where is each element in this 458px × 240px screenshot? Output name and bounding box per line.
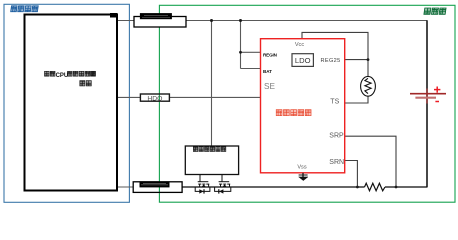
text 制器 xyxy=(80,81,91,86)
svg-text:SRN: SRN xyxy=(329,159,344,166)
FET Q1 (discharge) with body diode xyxy=(195,175,210,192)
svg-text:SE: SE xyxy=(264,82,275,91)
wire CPU box to pack- box xyxy=(117,186,133,188)
wire HDQ right xyxy=(169,96,260,98)
node SRN/rail xyxy=(356,186,359,189)
wire Vcc loop xyxy=(302,32,368,76)
text 主机CPU或电源管理控 xyxy=(45,71,55,76)
svg-text:BAT: BAT xyxy=(263,69,272,74)
host CPU / power management controller box xyxy=(25,15,118,191)
node SRP/rail xyxy=(395,186,398,189)
wire SRN xyxy=(345,161,358,188)
svg-text:Vcc: Vcc xyxy=(295,42,305,48)
battery pack positive terminal label box 电池组正极 xyxy=(134,17,186,28)
wire feed to REGIN/BAT xyxy=(240,21,242,69)
svg-text:TS: TS xyxy=(330,98,339,105)
wire TS xyxy=(345,96,368,103)
wire REG25 xyxy=(345,59,368,61)
node rail/protection feed xyxy=(210,19,213,22)
host system frame (blue) xyxy=(4,4,129,202)
IC name 气体测量计 (red) xyxy=(276,110,311,116)
wire CPU box to pack+ box xyxy=(117,20,134,22)
internal LDO block xyxy=(292,54,313,67)
svg-text:LDO: LDO xyxy=(295,56,311,65)
battery pack negative terminal label box 电池组负极 xyxy=(133,182,182,193)
wire BAT xyxy=(241,68,261,70)
fuel gauge IC U1 (red outline) xyxy=(261,39,345,173)
wire REGIN xyxy=(241,51,261,53)
protection circuit box 保护监控电路 xyxy=(185,146,238,175)
wire feed to protection circuit xyxy=(211,21,213,147)
sense resistor RS xyxy=(365,183,386,191)
svg-text:CPU: CPU xyxy=(56,73,69,79)
host system label 主机系统 xyxy=(11,6,39,12)
wire HDQ left xyxy=(117,96,140,98)
node REG25/thermistor xyxy=(367,58,370,61)
svg-text:SRP: SRP xyxy=(329,133,344,140)
svg-text:REG25: REG25 xyxy=(321,58,341,64)
wire top rail pack+ to battery xyxy=(186,20,428,22)
battery pack frame (green) xyxy=(159,5,455,202)
node rail/REGIN feed xyxy=(239,19,242,22)
node REGIN tee xyxy=(239,51,242,54)
HDQ interface box xyxy=(140,94,169,101)
svg-text:HDQ: HDQ xyxy=(147,95,162,102)
svg-text:REGIN: REGIN xyxy=(263,53,278,58)
wire bottom rail right of sense resistor xyxy=(385,186,428,188)
battery cell BT1 xyxy=(410,87,446,104)
wire SRP xyxy=(345,136,396,187)
FET Q2 (charge) with body diode xyxy=(215,175,231,192)
battery pack label 电池组 xyxy=(424,8,446,14)
wire bottom rail left of sense resistor xyxy=(182,186,364,188)
svg-text:Vss: Vss xyxy=(297,165,307,171)
thermistor RT xyxy=(361,76,376,96)
wire battery vertical xyxy=(426,21,428,188)
ground symbol at Vss xyxy=(299,173,308,181)
